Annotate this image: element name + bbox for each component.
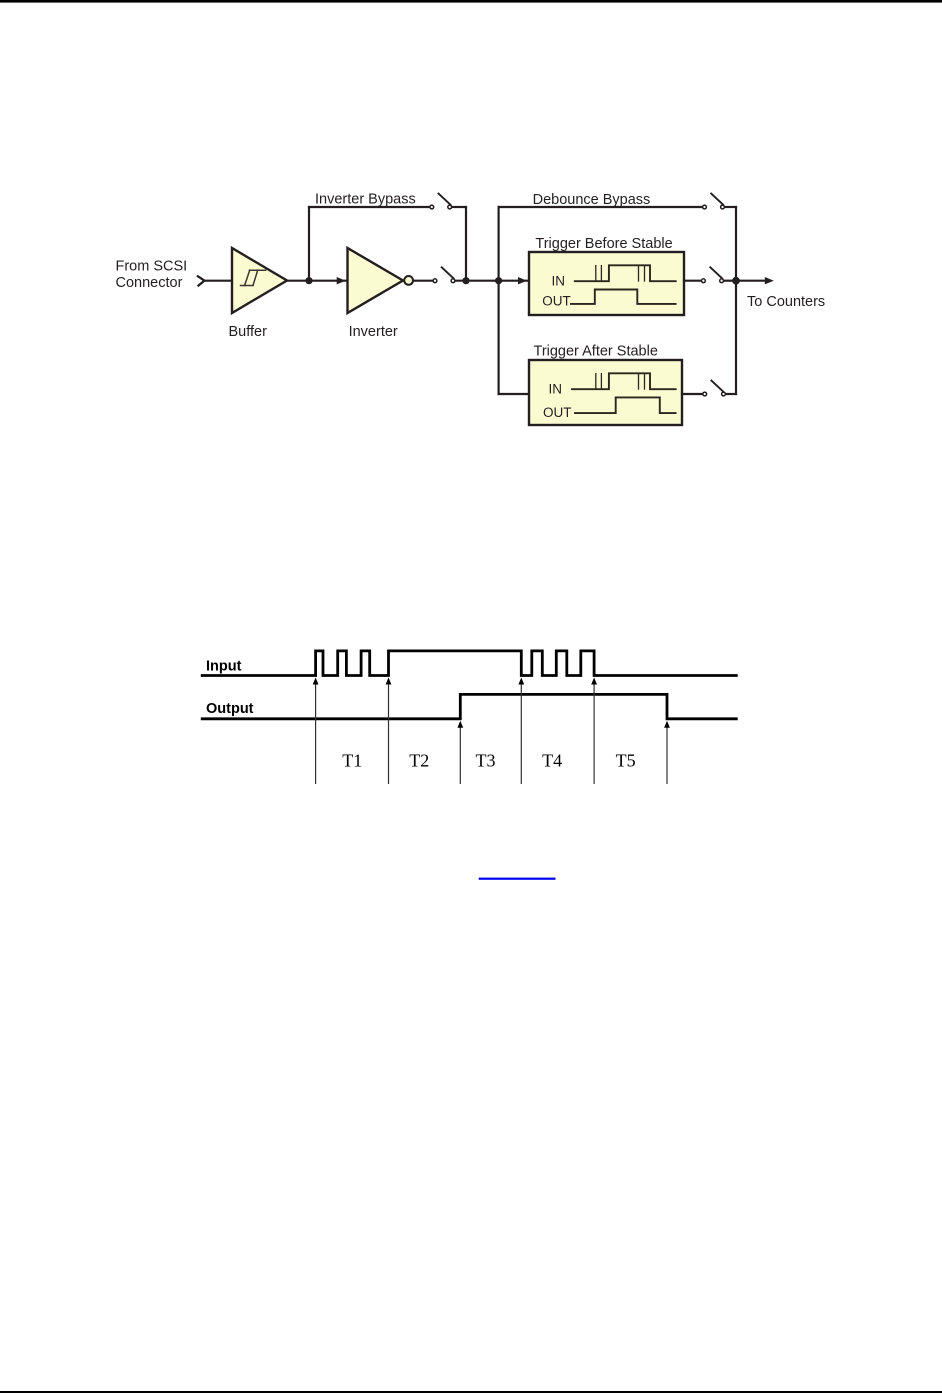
wire bypass vertical rejoin (465, 207, 467, 281)
buffer U1 (232, 248, 287, 313)
wire S5 to bus (726, 393, 736, 395)
arrowhead into debounce box (518, 277, 527, 284)
svg-text:T4: T4 (542, 751, 562, 771)
Input waveform (201, 651, 738, 676)
debounce block U4 Trigger After Stable (529, 360, 682, 425)
svg-text:Trigger After Stable: Trigger After Stable (534, 343, 658, 359)
bottom page rule (0, 1391, 942, 1393)
wire inverter bypass horizontal (309, 206, 429, 208)
debounce block U3 Trigger Before Stable (529, 252, 684, 315)
node A junction dot (305, 277, 312, 284)
svg-text:OUT: OUT (543, 405, 572, 420)
U4 OUT waveform (575, 397, 676, 413)
switch S4 trigger-before output (702, 267, 724, 282)
wire bypass to right bus (725, 206, 736, 208)
wire branch up to inverter bypass (308, 207, 310, 281)
marker line t1 start (313, 678, 319, 785)
marker line t4 start (518, 678, 524, 785)
arrowhead into inverter (337, 277, 346, 284)
U3 OUT waveform (571, 290, 676, 304)
svg-text:Output: Output (206, 701, 254, 717)
switch S1 inverter bypass (430, 194, 452, 209)
svg-text:Buffer: Buffer (229, 324, 268, 340)
svg-text:Trigger Before Stable: Trigger Before Stable (535, 236, 672, 252)
hysteresis symbol (241, 270, 266, 285)
label From SCSI Connector (116, 259, 188, 292)
svg-text:OUT: OUT (542, 293, 571, 308)
wire debounce branch vertical (498, 207, 500, 394)
svg-text:Connector: Connector (116, 275, 183, 291)
wire bypass switch to rejoin (453, 206, 466, 208)
wire input to buffer (204, 280, 233, 282)
node C junction dot (debounce branch) (495, 277, 502, 284)
marker line t3 start (457, 721, 463, 784)
input chevron (198, 276, 205, 285)
arrowhead to counters (765, 277, 774, 284)
wire output to counters (736, 280, 765, 282)
Output waveform (201, 694, 738, 718)
top page rule (0, 0, 942, 3)
svg-text:IN: IN (549, 382, 563, 397)
wire S4 to bus (724, 280, 736, 282)
svg-text:From SCSI: From SCSI (116, 259, 188, 275)
marker line t5 start (591, 678, 597, 785)
wire main to debounce boxes (456, 280, 529, 282)
svg-text:T1: T1 (342, 751, 362, 771)
wire debounce bypass horizontal (499, 206, 703, 208)
U3 IN waveform (575, 265, 676, 281)
inverter U2 (348, 248, 404, 313)
inverter output bubble (404, 276, 413, 285)
wire buffer to inverter (287, 280, 348, 282)
switch S3 debounce bypass (703, 194, 725, 209)
marker line t2 start (386, 678, 392, 785)
wire into trigger-after box (499, 393, 529, 395)
wire U4 output (682, 393, 702, 395)
svg-text:Inverter: Inverter (349, 324, 398, 340)
svg-text:Debounce Bypass: Debounce Bypass (533, 192, 651, 208)
right bus wire (735, 207, 737, 394)
wire U3 output (684, 280, 701, 282)
svg-text:IN: IN (552, 274, 566, 289)
svg-text:T2: T2 (409, 751, 429, 771)
node D junction dot (bus) (732, 277, 740, 285)
U4 IN waveform (572, 373, 676, 389)
node B junction dot (bypass rejoin) (462, 277, 469, 284)
svg-text:T5: T5 (616, 751, 636, 771)
svg-text:Inverter Bypass: Inverter Bypass (315, 191, 416, 207)
marker line t5 end (664, 721, 670, 784)
svg-text:To Counters: To Counters (747, 294, 825, 310)
switch S5 trigger-after output (703, 381, 726, 396)
blue hyperlink rule (479, 878, 556, 880)
svg-text:Input: Input (206, 659, 242, 675)
wire inverter output (414, 280, 432, 282)
switch S2 inverter select (433, 267, 455, 282)
svg-text:T3: T3 (476, 751, 496, 771)
